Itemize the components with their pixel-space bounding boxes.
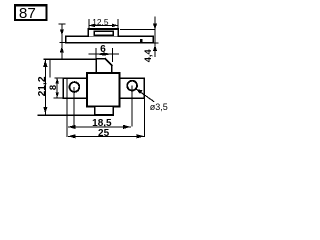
svg-text:25: 25 [98,128,110,139]
svg-text:ø3,5: ø3,5 [150,102,168,112]
svg-text:4,4: 4,4 [143,49,153,63]
svg-text:8: 8 [47,85,58,90]
svg-text:12,5: 12,5 [92,17,109,27]
svg-text:87: 87 [19,5,36,22]
svg-text:6: 6 [100,44,106,55]
